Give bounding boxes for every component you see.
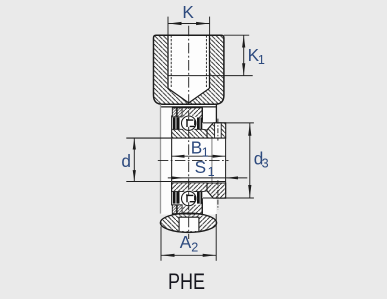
collar top section <box>207 123 226 138</box>
thread dashed line left <box>170 35 172 87</box>
shaft bore top line <box>126 137 225 139</box>
outer ring bottom corner fill <box>197 201 202 204</box>
vertical centre line <box>188 26 190 116</box>
svg-text:S: S <box>195 157 206 177</box>
dimension A2 extension lines <box>160 227 162 261</box>
housing right face upper segment <box>215 104 217 123</box>
collar screw axis (dash-dot) top <box>217 119 219 141</box>
dimension A2 line with arrows <box>161 254 216 256</box>
collar top edge line extended <box>203 122 254 124</box>
collar bottom edge line extended <box>203 197 254 199</box>
outer ring right face top <box>201 108 203 123</box>
dimension K1 top extension <box>224 34 249 36</box>
dimension K extension lines <box>167 17 169 35</box>
housing right recess face (grey) <box>211 139 213 183</box>
seal top column 1 <box>172 108 176 117</box>
collar bottom section <box>207 183 226 198</box>
svg-text:B: B <box>191 138 202 158</box>
bore wall left <box>167 35 169 88</box>
housing bottom cap left half <box>160 213 188 232</box>
dimension K1 line with arrows <box>243 35 245 75</box>
inner ring / collar right face <box>225 138 227 194</box>
inner ring bottom section <box>172 183 207 192</box>
dimension B1 line with arrows <box>172 155 226 157</box>
housing boss (top block) hatched body <box>154 35 224 104</box>
part silhouette (white) bottom cap <box>160 213 216 232</box>
race gap (white) around top ball <box>180 115 197 132</box>
bore cone bottom <box>168 88 210 103</box>
seal bars bottom right <box>197 192 200 204</box>
housing shoulder line <box>161 106 217 108</box>
seal bars bottom left <box>173 192 176 204</box>
cap outline <box>160 213 216 232</box>
ball top centre marks <box>187 119 195 127</box>
thread dashed line right <box>205 35 207 87</box>
shaft bore bottom line <box>126 181 225 183</box>
part silhouette (white) boss <box>154 35 224 104</box>
collar screw axis (dash-dot) bottom <box>217 180 219 209</box>
ball top <box>182 116 196 130</box>
inner ring top section <box>172 129 207 138</box>
bore wall right <box>209 35 211 88</box>
seal bottom column 1 <box>172 205 176 214</box>
threaded bore (white) of boss <box>168 35 210 103</box>
part silhouette (white) housing band <box>161 104 217 214</box>
housing bottom cap right half <box>189 213 217 232</box>
svg-text:1: 1 <box>208 165 215 179</box>
outer ring bottom section <box>183 205 203 214</box>
outer ring top outline <box>172 108 202 120</box>
cap slot (white) <box>179 217 199 231</box>
svg-text:K: K <box>182 2 194 22</box>
outer ring right face bottom <box>201 198 203 213</box>
seal bottom column 2 <box>177 205 182 214</box>
outer ring top corner fill <box>197 117 202 120</box>
dimension d line with arrows <box>133 138 135 181</box>
outer ring top section <box>183 108 203 117</box>
part silhouette (white) collar overhang <box>216 123 225 198</box>
horizontal centre line <box>158 160 229 162</box>
seal top column 2 <box>177 108 182 117</box>
svg-text:d: d <box>121 151 131 171</box>
svg-text:A: A <box>180 232 192 252</box>
collar top slot (white) <box>215 123 222 138</box>
race gap (white) around bottom ball <box>180 190 197 207</box>
boss outline <box>154 35 224 104</box>
svg-text:3: 3 <box>262 156 269 170</box>
seal bars top right <box>197 118 200 130</box>
ball bottom <box>182 191 196 205</box>
thread depth line (K1 lower extension) <box>168 75 253 77</box>
svg-text:2: 2 <box>191 240 198 254</box>
seal bars top left <box>173 118 176 130</box>
housing left face (grey) <box>160 104 162 213</box>
dimension K line with arrows <box>168 23 210 25</box>
dimension d3 line with arrows <box>249 123 251 198</box>
outer ring bottom outline <box>172 202 202 214</box>
ball bottom centre marks <box>187 194 195 202</box>
dimension S1 line with outside arrows <box>168 177 248 179</box>
svg-text:PHE: PHE <box>168 270 205 294</box>
inner ring left face <box>171 115 173 205</box>
cap slot outline <box>179 217 199 231</box>
svg-text:1: 1 <box>258 53 265 67</box>
